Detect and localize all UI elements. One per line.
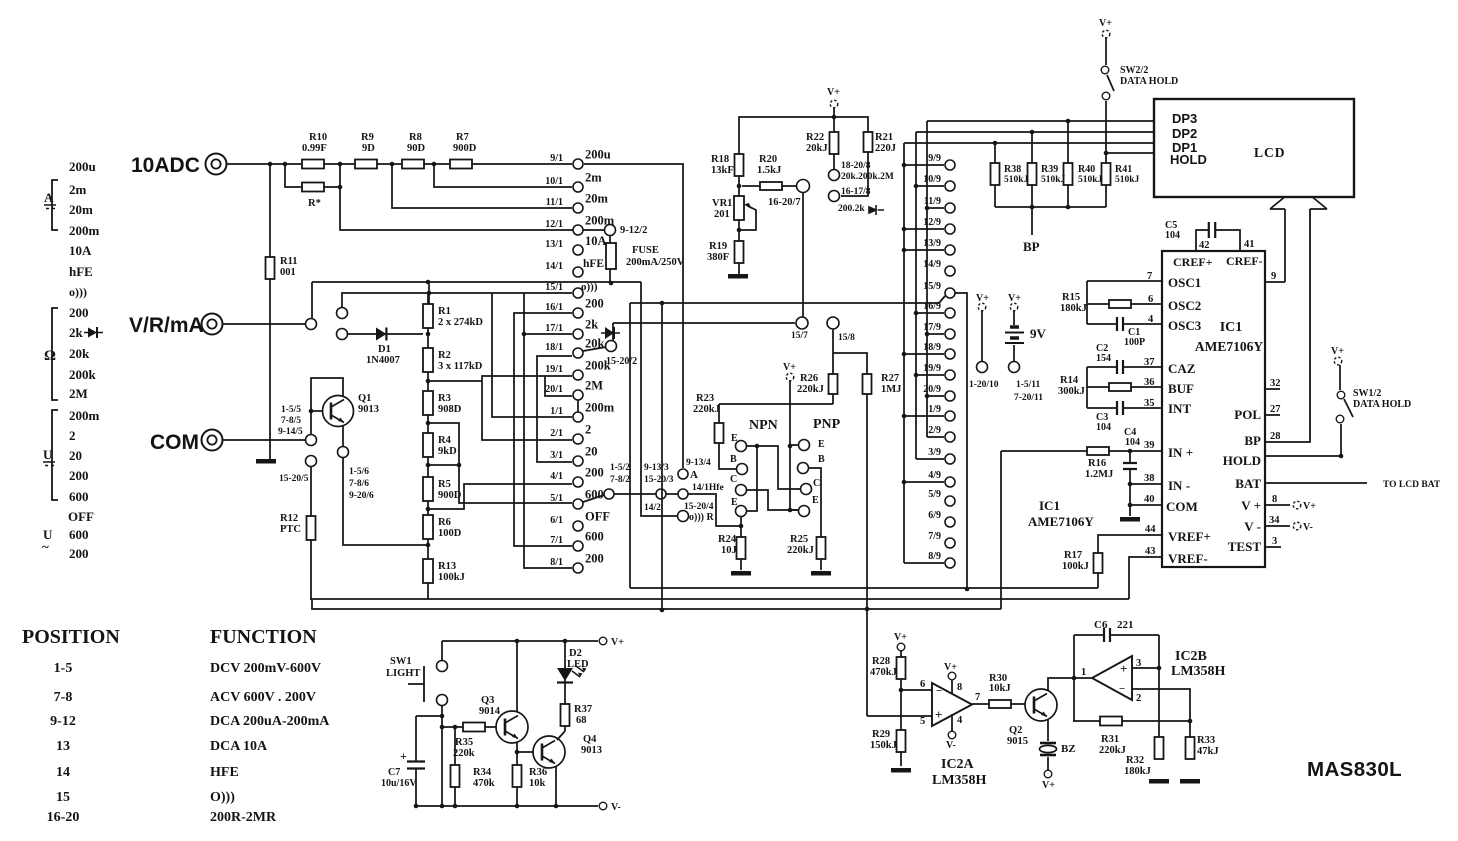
svg-text:15/8: 15/8 — [838, 333, 855, 343]
svg-text:FUSE: FUSE — [632, 245, 659, 256]
capacitor C6 221 — [1104, 627, 1110, 643]
ground under R24 — [731, 571, 751, 576]
socket PNP E bottom — [799, 506, 810, 517]
svg-text:BZ: BZ — [1061, 743, 1076, 755]
svg-text:20/1: 20/1 — [545, 384, 563, 395]
wire R1 top stub — [428, 282, 430, 305]
switch contact 11/1 — [573, 203, 583, 213]
svg-text:COM: COM — [150, 431, 199, 454]
wire pin 32 stub — [1265, 388, 1280, 390]
switch SW1/2 bottom contact — [1336, 415, 1344, 423]
svg-text:2M: 2M — [69, 386, 88, 401]
switch contact 20/9 — [945, 391, 955, 401]
junction divider chain y=509 — [426, 507, 431, 512]
svg-text:OSC1: OSC1 — [1168, 275, 1201, 290]
svg-text:R16: R16 — [1088, 458, 1106, 469]
resistor R16 1.2MJ — [1087, 447, 1109, 455]
supply V+ pin8 — [1293, 501, 1301, 509]
wire C6/R32 column — [1158, 635, 1160, 737]
svg-text:200u: 200u — [69, 159, 96, 174]
wire 15/1 row / divider top — [342, 293, 572, 308]
svg-text:2: 2 — [1136, 693, 1141, 704]
wire R2-R3 junction to 2/1 net — [428, 380, 482, 382]
svg-text:16-20/7: 16-20/7 — [768, 197, 801, 208]
switch contact 1-20/10 — [977, 362, 988, 373]
switch contact 15/9 — [945, 288, 955, 298]
svg-text:+: + — [1120, 661, 1127, 676]
svg-text:9kD: 9kD — [438, 446, 457, 457]
svg-text:10A: 10A — [69, 243, 92, 258]
svg-text:U: U — [43, 447, 53, 462]
svg-text:SW2/2: SW2/2 — [1120, 65, 1148, 76]
svg-text:11/9: 11/9 — [924, 196, 941, 207]
junction fuse bus at fuse — [609, 281, 614, 286]
resistor R23 — [715, 423, 724, 443]
wire C7 branch — [416, 715, 442, 717]
switch SW1/2 lever — [1344, 399, 1353, 417]
svg-text:TEST: TEST — [1228, 539, 1262, 554]
junction R40 at DP3 bus — [1066, 119, 1071, 124]
capacitor C1 100P — [1117, 316, 1123, 332]
svg-text:R31: R31 — [1101, 734, 1119, 745]
switch contact 15/1 — [573, 288, 583, 298]
svg-text:IN -: IN - — [1168, 478, 1190, 493]
wire stub 10/9 — [916, 185, 944, 187]
resistor R29 150kJ — [897, 730, 906, 752]
switch contact 18-20/8 — [829, 170, 840, 181]
junction 10/9 — [914, 184, 919, 189]
svg-text:221: 221 — [1117, 619, 1134, 631]
jack 10ADC — [206, 154, 227, 175]
wire V- pin 34 stub — [1265, 525, 1290, 527]
svg-text:R40: R40 — [1078, 164, 1095, 175]
svg-text:LM358H: LM358H — [1171, 664, 1226, 679]
svg-text:SW1: SW1 — [390, 656, 412, 667]
resnet R39 column — [1031, 132, 1033, 235]
wire C5 loop pins 42-41 — [1196, 230, 1240, 251]
switch contact 1/1 — [573, 412, 583, 422]
wire OSC3 pin 4 — [1087, 323, 1162, 325]
buzzer BZ — [1040, 743, 1057, 755]
resistor R25 — [817, 537, 826, 559]
svg-text:90D: 90D — [407, 143, 426, 154]
junction R* right — [338, 185, 343, 190]
wire COM jack to contact — [223, 439, 305, 441]
battery BT1 9V — [1005, 327, 1024, 343]
ground under R29 — [891, 768, 911, 773]
svg-text:~: ~ — [42, 539, 49, 554]
svg-text:37: 37 — [1144, 357, 1155, 368]
svg-text:900D: 900D — [438, 490, 462, 501]
svg-text:V+: V+ — [1303, 501, 1316, 512]
svg-text:−: − — [936, 685, 942, 697]
wire 200u row to node A vertical — [584, 164, 683, 468]
supply V- IC2A — [948, 731, 956, 739]
wire R21 to 16-17/8 contact — [841, 152, 868, 196]
ground under R19 — [728, 274, 748, 279]
wire R28 column — [900, 651, 902, 690]
svg-text:9015: 9015 — [1007, 736, 1028, 747]
junction IC2B output node — [1072, 676, 1077, 681]
svg-text:SW1/2: SW1/2 — [1353, 388, 1381, 399]
svg-text:C: C — [730, 474, 737, 485]
svg-text:9V: 9V — [1030, 326, 1047, 341]
junction C7 branch — [440, 714, 445, 719]
svg-text:R28: R28 — [872, 656, 890, 667]
resistor R* — [302, 183, 324, 192]
svg-text:5/9: 5/9 — [928, 489, 941, 500]
svg-text:OSC3: OSC3 — [1168, 318, 1202, 333]
junction pin3 R32 — [1157, 666, 1162, 671]
svg-text:15/1: 15/1 — [545, 282, 563, 293]
svg-text:DCA 10A: DCA 10A — [210, 739, 268, 754]
resistor R30 10kJ — [989, 700, 1011, 708]
junction bottom rail C7 — [414, 804, 419, 809]
wire R29 column — [900, 690, 902, 766]
svg-text:o))) R: o))) R — [689, 512, 714, 523]
wire Q2 emitter to buzzer — [1047, 720, 1049, 741]
svg-text:Q1: Q1 — [358, 393, 371, 404]
svg-text:220kJ: 220kJ — [1099, 745, 1126, 756]
wire OSC1 pin 7 — [1087, 280, 1162, 282]
svg-text:11/1: 11/1 — [546, 197, 563, 208]
svg-text:R12: R12 — [280, 513, 298, 524]
wire 18/1 to 3/1 link — [537, 356, 572, 462]
legend U DC underline — [43, 462, 55, 466]
switch contact 15/7 — [796, 317, 808, 329]
svg-text:COM: COM — [1166, 499, 1198, 514]
svg-text:17/1: 17/1 — [545, 323, 563, 334]
svg-text:MAS830L: MAS830L — [1307, 758, 1402, 781]
svg-text:7-20/11: 7-20/11 — [1014, 393, 1043, 403]
switch contact 15-20/5 — [306, 456, 317, 467]
wire R34 column — [454, 727, 456, 806]
wire 15/1-17/1-8/1 link — [524, 293, 572, 568]
svg-text:IC1: IC1 — [1220, 320, 1243, 335]
svg-text:ACV 600V . 200V: ACV 600V . 200V — [210, 690, 316, 705]
junction SW1-R35 — [440, 725, 445, 730]
svg-text:9-12: 9-12 — [50, 714, 76, 729]
wire R38-R41 common — [995, 206, 1106, 208]
svg-text:220kJ: 220kJ — [797, 384, 824, 395]
svg-text:LED: LED — [567, 659, 589, 670]
ground under R33 — [1180, 779, 1200, 784]
wire Q1 collector loop — [311, 378, 343, 411]
wire bus VREF- y599 — [310, 598, 1129, 600]
svg-text:15-20/5: 15-20/5 — [279, 474, 309, 484]
junction 13/9 — [902, 248, 907, 253]
wire feedback column — [1073, 635, 1075, 721]
svg-text:Q2: Q2 — [1009, 725, 1022, 736]
svg-text:R9: R9 — [361, 132, 374, 143]
wire SW2/2 upper — [1105, 38, 1107, 65]
switch contact 15-20/2 — [606, 341, 617, 352]
wire stub 8/9 — [904, 562, 944, 564]
svg-text:LM358H: LM358H — [932, 773, 987, 788]
svg-text:200: 200 — [69, 546, 89, 561]
switch contact A 9-13/4 — [678, 469, 688, 479]
svg-text:D1: D1 — [378, 344, 391, 355]
wire VR1 wiper — [741, 206, 756, 230]
legend bracket ohm group — [52, 308, 58, 400]
svg-text:100D: 100D — [438, 528, 462, 539]
resistor R6 — [423, 515, 433, 539]
svg-text:DATA HOLD: DATA HOLD — [1120, 76, 1178, 87]
svg-text:B: B — [730, 454, 737, 465]
wire 15-20/2 stub — [612, 323, 614, 341]
svg-text:V+: V+ — [1331, 346, 1344, 357]
svg-text:+: + — [935, 707, 942, 722]
wire R5-R6 junction to 4/1 row — [428, 484, 572, 509]
junction net14/2 top — [660, 301, 665, 306]
svg-text:180kJ: 180kJ — [1060, 303, 1087, 314]
svg-text:510kJ: 510kJ — [1041, 175, 1066, 185]
resistor R19 — [735, 241, 744, 263]
svg-text:R41: R41 — [1115, 164, 1132, 175]
wire stub 17/9 — [927, 333, 944, 335]
wire TEST pin 3 stub — [1265, 546, 1281, 548]
svg-text:1.2MJ: 1.2MJ — [1085, 469, 1113, 480]
jack COM — [202, 430, 223, 451]
resistor R20 — [760, 182, 782, 190]
svg-text:1N4007: 1N4007 — [366, 355, 400, 366]
svg-text:200R-2MR: 200R-2MR — [210, 810, 277, 825]
wire DP3 bus — [927, 120, 1154, 122]
junction NPN E link — [755, 444, 760, 449]
wire Q4 emitter — [555, 766, 557, 806]
svg-text:R21: R21 — [875, 132, 893, 143]
wire R33 column — [1189, 721, 1191, 737]
svg-text:R18: R18 — [711, 154, 729, 165]
switch contact 5/1 — [573, 499, 583, 509]
svg-text:B: B — [818, 454, 825, 465]
junction bottom rail R34 — [453, 804, 458, 809]
svg-text:38: 38 — [1144, 473, 1155, 484]
resnet R41 column — [1105, 153, 1107, 207]
junction R27 at IC2A feed bus — [865, 607, 870, 612]
switch contact 17/9 — [945, 329, 955, 339]
wire IC2A V+ pin8 — [951, 680, 953, 694]
svg-text:220kJ: 220kJ — [693, 404, 720, 415]
svg-text:CREF-: CREF- — [1226, 254, 1263, 268]
wire V+ to contact 1-20/10 — [981, 311, 983, 361]
svg-text:9: 9 — [1271, 271, 1276, 282]
switch contact D1 row — [337, 329, 348, 340]
switch contact 12/9 — [945, 224, 955, 234]
svg-text:20m: 20m — [585, 192, 609, 206]
wire R11 shunt column — [269, 164, 271, 459]
svg-text:DCV 200mV-600V: DCV 200mV-600V — [210, 661, 321, 676]
svg-text:7-8: 7-8 — [54, 690, 73, 705]
svg-text:510kJ: 510kJ — [1115, 175, 1140, 185]
junction 15/9 net at bus — [965, 587, 970, 592]
wire D1 branch — [348, 333, 423, 335]
wire Q3 collector — [516, 641, 518, 712]
wire divider chain R1-R13 — [427, 294, 429, 599]
svg-text:2k: 2k — [69, 325, 84, 340]
svg-text:9014: 9014 — [479, 706, 501, 717]
svg-text:20/9: 20/9 — [923, 384, 941, 395]
svg-text:R7: R7 — [456, 132, 469, 143]
capacitor C3 104 — [1117, 400, 1123, 416]
wire 10ADC main rail — [227, 163, 572, 165]
switch contact 2/1 — [573, 434, 583, 444]
svg-text:AME7106Y: AME7106Y — [1195, 339, 1263, 354]
legend bracket DCV group — [52, 410, 58, 500]
wire NPN E-E link — [747, 446, 757, 511]
svg-text:200m: 200m — [69, 223, 100, 238]
wire 200m DCV tap to 1/1 row — [492, 293, 572, 417]
wire 19/1 to 20/1 link — [482, 376, 572, 440]
svg-text:R2: R2 — [438, 350, 451, 361]
wire 15/8 jog to R27 — [833, 353, 867, 374]
wire bank2 vertical C — [926, 121, 928, 437]
svg-text:8/9: 8/9 — [928, 551, 941, 562]
wire stub 18/9 — [904, 353, 944, 355]
wire Q1 emitter chain to R6-R13 junction — [343, 426, 428, 545]
wire bus diag to 15/9 — [939, 296, 945, 303]
switch contact 7/1 — [573, 541, 583, 551]
wire stub 9/9 — [904, 164, 944, 166]
junction IN- node — [1128, 482, 1133, 487]
svg-text:R11: R11 — [280, 256, 298, 267]
junction main rail x=434 — [432, 162, 437, 167]
junction bottom rail R36 — [515, 804, 520, 809]
svg-text:10/9: 10/9 — [923, 174, 941, 185]
wire R26 bottom — [832, 394, 834, 404]
wire COM pin 40 — [1130, 504, 1162, 506]
svg-text:44: 44 — [1145, 524, 1156, 535]
svg-text:2M: 2M — [585, 379, 603, 393]
resistor R27 — [863, 374, 872, 394]
socket PNP C — [801, 484, 812, 495]
svg-text:2 x 274kD: 2 x 274kD — [438, 317, 483, 328]
junction COM node — [1128, 503, 1133, 508]
wire stub 3/9 — [916, 458, 944, 460]
svg-text:VREF-: VREF- — [1168, 551, 1208, 566]
supply V+ light rail — [599, 637, 607, 645]
svg-text:300kJ: 300kJ — [1058, 386, 1085, 397]
junction divider chain y=423 — [426, 421, 431, 426]
svg-text:A: A — [44, 190, 54, 205]
svg-text:3/1: 3/1 — [550, 450, 563, 461]
wire buzzer to supply — [1047, 757, 1049, 770]
switch contact divider top — [337, 308, 348, 319]
svg-text:470kJ: 470kJ — [870, 667, 897, 678]
supply V+ SW1/2 — [1334, 357, 1342, 365]
svg-text:OFF: OFF — [585, 510, 610, 524]
svg-text:20k: 20k — [585, 337, 605, 351]
potentiometer VR1 — [734, 196, 744, 220]
wire Q1 base to COM contact — [310, 411, 312, 435]
resnet R40 column — [1067, 121, 1069, 207]
svg-text:2k: 2k — [585, 318, 598, 332]
resistor R9 — [355, 160, 377, 169]
wire arrow left stem pin9 — [1284, 209, 1286, 282]
junction 1/9 — [902, 414, 907, 419]
svg-text:7: 7 — [1147, 271, 1152, 282]
junction D2 column rail — [563, 639, 568, 644]
svg-text:BP: BP — [1023, 239, 1040, 254]
resistor R18 — [735, 154, 744, 176]
switch contact 10/1 — [573, 182, 583, 192]
junction R34 top — [453, 725, 458, 730]
socket NPN E bottom — [736, 506, 747, 517]
svg-text:2/9: 2/9 — [928, 425, 941, 436]
resistor R8 — [402, 160, 424, 169]
switch contact 7/9 — [945, 538, 955, 548]
svg-text:R22: R22 — [806, 132, 824, 143]
wire 17/1 row stub — [524, 333, 572, 335]
wire R27 to IC2A plus input — [866, 394, 868, 716]
wire C4 column — [1129, 451, 1131, 516]
arrow VR1 wiper head — [744, 203, 752, 209]
svg-text:41: 41 — [1244, 239, 1255, 250]
svg-text:7/9: 7/9 — [928, 531, 941, 542]
svg-text:20: 20 — [69, 448, 82, 463]
svg-text:IN +: IN + — [1168, 445, 1193, 460]
svg-text:CAZ: CAZ — [1168, 361, 1196, 376]
resistor R5 — [423, 477, 433, 501]
junction main rail x=285 — [283, 162, 288, 167]
switch contact 6/9 — [945, 517, 955, 527]
svg-text:8: 8 — [1272, 494, 1277, 505]
svg-text:2: 2 — [69, 428, 76, 443]
svg-text:9-20/6: 9-20/6 — [349, 491, 374, 501]
svg-text:R4: R4 — [438, 435, 452, 446]
svg-text:V-: V- — [946, 740, 956, 751]
wire hFE row to R24 node — [688, 494, 741, 526]
wire CAZ pin 37 — [1087, 366, 1162, 368]
switch contact 16-20/7 — [797, 180, 810, 193]
switch contact 9/1 — [573, 159, 583, 169]
wire V+ to PNP E top — [790, 444, 798, 446]
LCD module box — [1154, 99, 1354, 197]
svg-text:HOLD: HOLD — [1170, 152, 1207, 167]
svg-text:200: 200 — [585, 466, 604, 480]
junction main rail x=340 — [338, 162, 343, 167]
switch contact 6/1 — [573, 521, 583, 531]
svg-text:OFF: OFF — [68, 509, 94, 524]
svg-text:BP: BP — [1244, 433, 1261, 448]
LED D2 — [557, 666, 587, 683]
svg-text:43: 43 — [1145, 546, 1156, 557]
svg-text:200m: 200m — [585, 214, 615, 228]
resistor R26 — [829, 374, 838, 394]
wire R* parallel branch — [285, 164, 340, 187]
wire 16/1 to 7/1 link — [514, 313, 572, 546]
wire IC2A plus input row — [867, 715, 932, 717]
svg-text:9-13/4: 9-13/4 — [686, 458, 711, 468]
switch contact 1-5/2 7-8/2 — [604, 489, 614, 499]
svg-text:15: 15 — [56, 790, 70, 805]
resistor R32 180kJ — [1155, 737, 1164, 759]
svg-text:POL: POL — [1234, 407, 1261, 422]
capacitor C4 104 — [1122, 463, 1138, 469]
fuse F1 200mA/250V — [606, 243, 616, 269]
svg-text:10A: 10A — [585, 234, 607, 248]
switch contact 16-17/8 — [829, 191, 840, 202]
supply V+ R22 rail — [830, 100, 838, 108]
svg-text:4: 4 — [957, 715, 963, 726]
svg-text:15/9: 15/9 — [923, 281, 941, 292]
wire VREF+ pin 44 to R17 — [1098, 535, 1162, 553]
resistor R7 — [450, 160, 472, 169]
wire battery bottom lead — [1013, 345, 1015, 361]
wire IC2A V- pin4 — [951, 714, 953, 731]
svg-text:1.5kJ: 1.5kJ — [757, 165, 781, 176]
resistor R33 47kJ — [1186, 737, 1195, 759]
